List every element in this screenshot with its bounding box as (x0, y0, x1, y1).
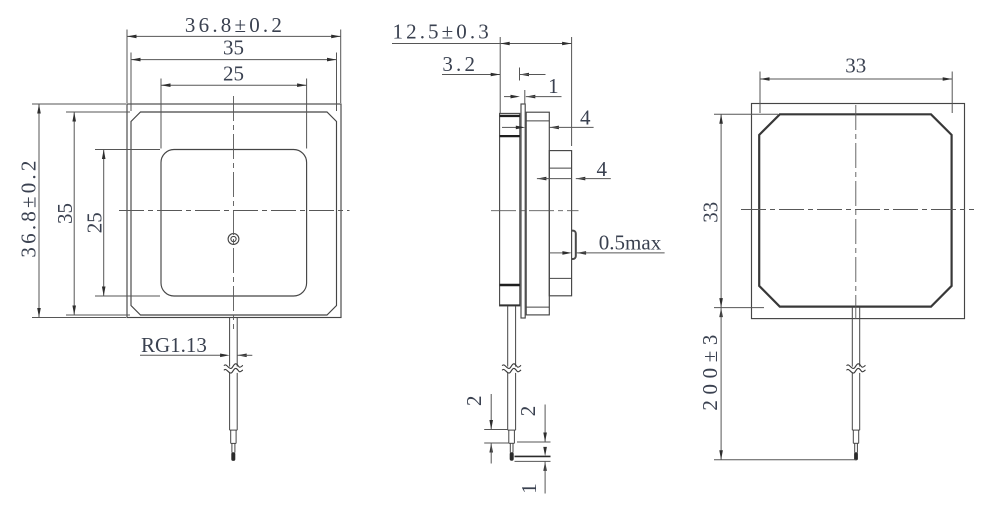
ext line right face x=571.6 (571, 37, 573, 146)
connector inner line bottom (549, 277, 571, 279)
ext line 200 bottom to cable tip (714, 459, 857, 461)
svg-text:36.8±0.2: 36.8±0.2 (185, 13, 285, 37)
4 housing right tail (549, 126, 593, 128)
dim line 33 left (720, 114, 722, 307)
rear cable braid end (853, 442, 858, 444)
front view horizontal centerline (119, 210, 350, 212)
front view radiating patch 25mm rounded square (161, 150, 307, 297)
ext line braid end right (517, 441, 551, 443)
side cable braid right (513, 430, 515, 443)
side view housing 4mm (526, 112, 549, 315)
dim line 36.8±0.2 top (127, 35, 341, 37)
RG1.13 left arrow (220, 354, 230, 358)
svg-text:33: 33 (699, 202, 723, 223)
ext line 33 left bottom (714, 307, 764, 309)
ext line 25 left bottom (95, 295, 160, 297)
rear cable right edge lower (859, 373, 861, 430)
svg-text:4: 4 (597, 157, 608, 181)
side cable jacket end (508, 429, 516, 431)
4 connector right tail (576, 178, 611, 180)
side cable left edge upper (507, 306, 509, 366)
dim line 3.2 (442, 74, 500, 76)
front cable break mark lower (224, 368, 243, 373)
4 housing arrow right-pointing (516, 126, 526, 130)
front cable jacket end (230, 429, 238, 431)
ext tick plate right x=524.8 (524, 90, 526, 105)
2 left up arrow (489, 443, 493, 453)
ext line 36.8 top left (126, 30, 128, 104)
ceramic slab dark band lower (500, 284, 520, 286)
svg-text:3.2: 3.2 (442, 52, 478, 76)
1 right tail (526, 96, 562, 98)
RG1.13 right tail (237, 354, 252, 356)
ext line 35 top left (130, 53, 132, 112)
rear cable left edge upper (851, 307, 853, 367)
dim line 35 left (73, 112, 75, 315)
svg-text:12.5±0.3: 12.5±0.3 (393, 19, 492, 43)
svg-text:2: 2 (462, 395, 486, 406)
side cable tip (510, 452, 514, 460)
1 arrow left-pointing (526, 95, 536, 99)
svg-text:1: 1 (517, 483, 541, 494)
ext line tip end right (515, 460, 551, 462)
front cable left edge upper (229, 318, 231, 367)
ext line left face x=500 (499, 37, 501, 113)
side cable right edge lower (515, 373, 517, 430)
front cable break mark upper (224, 364, 243, 369)
rear cable braid right (858, 430, 860, 443)
dim line 0.5max left part (550, 252, 564, 254)
ext line 33 top right (951, 72, 953, 114)
dim line 36.8±0.2 left (38, 104, 40, 318)
svg-text:2: 2 (516, 406, 540, 417)
3.2 arrow right-pointing (491, 73, 501, 77)
side view connector block 4mm (549, 151, 571, 296)
4 connector left arrow (537, 177, 547, 181)
side view horizontal centerline (491, 210, 579, 212)
svg-text:33: 33 (845, 54, 866, 78)
svg-text:35: 35 (53, 203, 77, 224)
dim line 4 housing left tail (502, 126, 517, 128)
ext line 33 left top (714, 113, 778, 115)
dim line 2 left upper (490, 394, 492, 430)
front view outer square 36.8mm (127, 104, 341, 318)
side cable break mark upper (502, 364, 521, 369)
front cable right edge lower (236, 373, 238, 430)
4 connector right arrow (576, 177, 586, 181)
dim line 4 connector (537, 178, 572, 180)
200 up arrow (719, 308, 723, 318)
side cable left edge lower (507, 373, 509, 430)
rear cable tip (854, 452, 858, 460)
ext line ceramic right x=519.5 (519, 68, 521, 81)
svg-text:RG1.13: RG1.13 (141, 333, 207, 357)
rear cable right edge upper (859, 307, 861, 367)
side cable right edge upper (515, 306, 517, 366)
1 tip down arrow (543, 447, 547, 457)
rear cable braid left (852, 430, 854, 443)
3.2 arrow left-pointing (520, 73, 530, 77)
side cable braid left (508, 430, 510, 443)
ceramic slab dark band upper (500, 135, 520, 137)
3.2 right tail (520, 74, 546, 76)
side cable break mark lower (502, 368, 521, 373)
1 arrow right-pointing (511, 95, 521, 99)
front cable conductor right (234, 443, 236, 452)
rear view ground plane octagon 33mm (759, 114, 951, 306)
front cable conductor left (231, 443, 233, 452)
dim line 1 tip lower tail (544, 461, 546, 493)
side cable braid end (509, 442, 515, 444)
front cable right edge upper (236, 318, 238, 367)
svg-text:36.8±0.2: 36.8±0.2 (16, 157, 40, 257)
ext line conductor end right dark (515, 455, 551, 457)
side cable conductor left (509, 443, 511, 452)
svg-text:0.5max: 0.5max (599, 230, 662, 254)
svg-text:1: 1 (548, 74, 559, 98)
housing inner line top (526, 120, 549, 122)
2 right down arrow (543, 433, 547, 443)
rear cable break mark upper (847, 364, 866, 369)
0.5max arrow right-pointing (562, 251, 572, 255)
ext line 25 top right (306, 79, 308, 149)
rear view horizontal centerline (741, 209, 974, 211)
front view feed point circles (228, 234, 239, 245)
ext line 25 top left (160, 79, 162, 149)
dim line 200±3 left (720, 308, 722, 460)
front view ceramic 35mm chamfered square (131, 112, 337, 315)
dim line 33 top (760, 78, 952, 80)
rear cable conductor right (856, 443, 858, 452)
connector inner line top (549, 167, 571, 169)
rear cable left edge lower (851, 373, 853, 430)
rear cable conductor left (854, 443, 856, 452)
front cable tip (231, 452, 235, 461)
4 housing arrow left-pointing (549, 126, 559, 130)
side view base plate 1mm (521, 104, 525, 318)
front cable braid right (235, 430, 237, 443)
dim line 25 top (161, 84, 307, 86)
ext line 35 left bottom (66, 314, 130, 316)
dim line 1 left tail (504, 96, 511, 98)
front cable left edge lower (229, 373, 231, 430)
200 down arrow (719, 450, 723, 460)
front cable braid left (230, 430, 232, 443)
front cable braid end (231, 442, 236, 444)
svg-text:200±3: 200±3 (698, 329, 722, 411)
svg-text:25: 25 (82, 212, 106, 233)
1 tip up arrow (543, 461, 547, 471)
ext line braid end left (484, 442, 509, 444)
ext line 35 top right (336, 53, 338, 112)
dim line 25 left (103, 150, 105, 297)
side view snap clip 0.5max bump (572, 231, 576, 259)
rear view outer square (752, 104, 965, 319)
rear cable break mark lower (847, 368, 866, 373)
dim line 2 left lower tail (490, 443, 492, 464)
front view vertical centerline (233, 96, 235, 329)
side view ceramic slab 3.2mm (500, 113, 520, 306)
housing inner line bottom (526, 306, 549, 308)
ext line 33 top left (759, 72, 761, 114)
rear view vertical centerline (855, 105, 857, 319)
ext line 35 left top (66, 111, 130, 113)
RG1.13 right arrow (237, 354, 247, 358)
side cable conductor right (512, 443, 514, 452)
dim line 35 top (131, 59, 337, 61)
ext line 36.8 top right (340, 30, 342, 104)
svg-text:4: 4 (580, 106, 591, 130)
svg-text:25: 25 (223, 61, 244, 85)
dim line 12.5±0.3 (392, 43, 572, 45)
33 down arrow (719, 298, 723, 308)
svg-text:35: 35 (223, 36, 244, 60)
2 left down arrow (489, 420, 493, 430)
ext line 36.8 left bottom (32, 317, 126, 319)
ext line jacket end left (484, 429, 508, 431)
RG1.13 leader line (140, 354, 226, 356)
dim line 2 right upper (544, 405, 546, 443)
ext line 25 left top (95, 149, 160, 151)
33 up arrow (719, 114, 723, 124)
0.5max right tail (577, 252, 665, 254)
ext line 36.8 left top (32, 103, 126, 105)
ceramic slab dark edge top (500, 115, 520, 117)
rear cable jacket end (852, 429, 859, 431)
ceramic slab dark edge bottom (500, 304, 520, 306)
0.5max arrow left-pointing (577, 251, 587, 255)
